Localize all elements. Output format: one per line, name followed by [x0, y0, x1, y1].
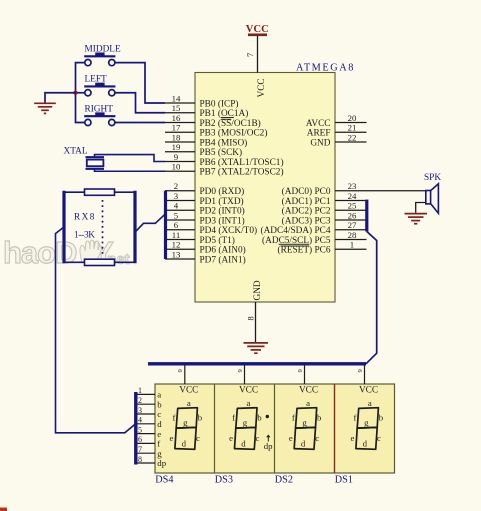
- svg-text:PB5 (SCK): PB5 (SCK): [200, 147, 243, 158]
- wire MIDDLE to PB0: [115, 63, 165, 103]
- wire VCC stem DS4: [177, 366, 185, 385]
- DS3 dp label with arrow: [264, 435, 273, 451]
- wire IC pin 8 to ground: [246, 302, 256, 342]
- svg-text:6: 6: [174, 220, 179, 230]
- svg-text:PD4 (XCK/T0): PD4 (XCK/T0): [200, 225, 258, 236]
- svg-text:f: f: [157, 439, 160, 449]
- wire VCC stem DS2: [297, 366, 305, 385]
- svg-text:10: 10: [172, 162, 181, 172]
- DS4 pin 8 segment dp: [137, 455, 167, 468]
- svg-text:b: b: [317, 413, 322, 423]
- wire RN1 left bar down to DS4 bus: [56, 227, 136, 433]
- pin 21 AREF right stub: [307, 123, 367, 139]
- svg-text:c: c: [315, 433, 319, 443]
- svg-text:d: d: [182, 439, 187, 449]
- svg-text:1: 1: [350, 240, 354, 250]
- svg-text:e: e: [351, 433, 355, 443]
- watermark haoDZY.net: [3, 235, 130, 270]
- DS4 pin 6 segment f: [137, 435, 160, 448]
- pin 24 PC1 right stub: [282, 191, 367, 207]
- svg-text:8: 8: [138, 455, 142, 464]
- svg-text:VCC: VCC: [359, 386, 378, 396]
- svg-text:f: f: [232, 413, 235, 423]
- svg-text:g: g: [243, 418, 248, 428]
- svg-text:25: 25: [348, 201, 357, 211]
- wire crystal bottom to PB7 pin 10: [95, 169, 166, 171]
- segment labels DS3: [229, 398, 262, 449]
- segment labels DS4: [170, 398, 203, 449]
- wire RN1 right bar to PD bus: [136, 214, 166, 231]
- svg-text:dp: dp: [264, 441, 273, 451]
- pin 11 PD5 left stub: [165, 230, 235, 246]
- display divider DS2|DS1: [334, 384, 336, 473]
- crystal Y1: [86, 157, 105, 169]
- wire VCC to IC pin 7: [245, 36, 258, 73]
- crystal XTAL label: [64, 147, 88, 157]
- svg-text:(RESET) PC6: (RESET) PC6: [278, 245, 331, 256]
- pushbutton LEFT: [84, 75, 115, 96]
- seven segment glyph DS2: [294, 408, 317, 450]
- pin 26 PC3 right stub: [282, 210, 367, 226]
- svg-text:f: f: [173, 413, 176, 423]
- pin 17 PB3 left stub: [165, 123, 267, 139]
- svg-text:dp: dp: [157, 458, 166, 468]
- bus horizontal above displays: [148, 362, 366, 365]
- svg-text:d: d: [157, 419, 162, 429]
- svg-text:24: 24: [348, 191, 357, 201]
- ground symbol at speaker: [405, 214, 428, 224]
- IC pin 7 VCC rotated label: [257, 78, 267, 97]
- svg-text:6: 6: [138, 435, 142, 444]
- pin 3 PD1 left stub: [165, 191, 244, 207]
- svg-text:5: 5: [174, 210, 179, 220]
- svg-text:14: 14: [172, 93, 181, 103]
- DS1 designator label: [335, 475, 353, 486]
- svg-text:R X 8: R X 8: [74, 213, 95, 223]
- svg-text:8: 8: [246, 316, 256, 320]
- svg-text:a: a: [306, 398, 310, 408]
- svg-text:9: 9: [357, 369, 364, 372]
- pin 25 PC2 right stub: [282, 201, 367, 217]
- svg-text:4: 4: [138, 416, 142, 425]
- pin 15 PB1 left stub: [165, 103, 248, 119]
- RN1 label R X 8: [74, 213, 95, 223]
- RN1 ellipsis dotted line: [102, 200, 104, 256]
- svg-text:PD5 (T1): PD5 (T1): [200, 235, 235, 246]
- svg-text:c: c: [196, 433, 200, 443]
- pin 27 PC4 right stub: [261, 220, 367, 236]
- svg-text:VCC: VCC: [246, 24, 269, 35]
- svg-text:c: c: [256, 433, 260, 443]
- pin 16 PB2 left stub: [165, 113, 261, 129]
- svg-text:17: 17: [172, 123, 181, 133]
- IC U1 designator ATMEGA8: [296, 63, 355, 74]
- svg-text:PB3 (MOSI/OC2): PB3 (MOSI/OC2): [200, 128, 268, 139]
- svg-text:1: 1: [138, 386, 142, 395]
- svg-text:b: b: [198, 413, 203, 423]
- svg-text:PD2 (INT0): PD2 (INT0): [200, 206, 245, 217]
- svg-text:28: 28: [348, 230, 357, 240]
- svg-text:d: d: [241, 439, 246, 449]
- pin 23 PC0 right stub: [282, 181, 367, 197]
- DS4 pin 2 segment b: [137, 396, 162, 409]
- DS4 pin 1 segment a: [137, 386, 161, 399]
- svg-text:haoD: haoD: [3, 235, 77, 270]
- power VCC symbol top: [246, 24, 269, 35]
- wire RIGHT to PB2: [115, 122, 165, 124]
- svg-text:12: 12: [172, 240, 181, 250]
- svg-text:e: e: [289, 433, 293, 443]
- svg-text:DS1: DS1: [335, 475, 353, 486]
- pin 28 PC5 right stub: [262, 230, 366, 246]
- pin 18 PB4 left stub: [165, 132, 247, 148]
- svg-text:a: a: [368, 398, 372, 408]
- wire crystal top to PB6 pin 9: [95, 155, 166, 162]
- display module outer box: [155, 384, 395, 473]
- svg-text:DS2: DS2: [275, 475, 293, 486]
- pin 13 PD7 left stub: [165, 249, 246, 265]
- svg-text:9: 9: [177, 369, 184, 372]
- RN1 value 1--3K: [74, 231, 95, 241]
- DS3 designator label: [215, 475, 233, 486]
- svg-text:VCC: VCC: [299, 386, 318, 396]
- svg-text:e: e: [170, 433, 174, 443]
- svg-text:a: a: [187, 398, 191, 408]
- svg-text:ATMEGA8: ATMEGA8: [296, 63, 355, 74]
- wire to left ground: [45, 93, 76, 103]
- DS4 pin 3 segment c: [137, 406, 161, 419]
- svg-text:f: f: [354, 413, 357, 423]
- svg-text:PB0 (ICP): PB0 (ICP): [200, 98, 239, 109]
- svg-text:VCC: VCC: [257, 78, 267, 97]
- speaker SPK: [424, 173, 441, 213]
- resistor RN1 bottom element: [66, 259, 134, 265]
- ground symbol left of buttons: [34, 103, 56, 113]
- junction node buttons-ground: [73, 91, 77, 95]
- svg-text:27: 27: [348, 220, 357, 230]
- svg-text:VCC: VCC: [239, 386, 258, 396]
- seven segment glyph DS4: [175, 408, 198, 450]
- op IC U1 ATMEGA8 body: [195, 73, 335, 303]
- svg-text:c: c: [377, 433, 381, 443]
- IC pin 8 GND rotated label: [253, 280, 263, 300]
- seven segment glyph DS1: [356, 408, 379, 450]
- wire VCC stem DS1: [357, 366, 365, 385]
- svg-text:PB2 (SS/OC1B): PB2 (SS/OC1B): [200, 118, 261, 129]
- svg-text:f: f: [292, 413, 295, 423]
- svg-text:22: 22: [348, 132, 357, 142]
- svg-text:13: 13: [172, 249, 181, 259]
- svg-text:PD7 (AIN1): PD7 (AIN1): [200, 254, 246, 265]
- svg-text:PD3 (INT1): PD3 (INT1): [200, 215, 245, 226]
- svg-text:19: 19: [172, 142, 181, 152]
- svg-text:11: 11: [172, 230, 180, 240]
- svg-text:b: b: [157, 399, 162, 409]
- svg-text:b: b: [257, 413, 262, 423]
- wire VCC stem DS3: [237, 366, 245, 385]
- svg-text:c: c: [157, 409, 161, 419]
- pin 5 PD3 left stub: [165, 210, 245, 226]
- segment labels DS1: [351, 398, 384, 449]
- svg-text:PD1 (TXD): PD1 (TXD): [200, 196, 244, 207]
- svg-text:18: 18: [172, 132, 181, 142]
- svg-text:d: d: [301, 439, 306, 449]
- svg-text:15: 15: [172, 103, 181, 113]
- DS4 pin 5 segment e: [137, 425, 161, 438]
- pin 22 GND right stub: [310, 132, 366, 148]
- svg-text:7: 7: [245, 53, 255, 57]
- svg-text:g: g: [302, 418, 307, 428]
- pin 6 PD4 left stub: [165, 220, 257, 236]
- svg-text:9: 9: [237, 369, 244, 372]
- svg-text:21: 21: [348, 123, 357, 133]
- pushbutton RIGHT: [84, 105, 115, 126]
- DS4 pin 4 segment d: [137, 416, 162, 429]
- segment labels DS2: [289, 398, 322, 449]
- svg-text:AVCC: AVCC: [306, 119, 331, 129]
- display divider DS4|DS3: [214, 384, 216, 473]
- pin 2 PD0 left stub: [165, 181, 244, 197]
- bus PC pins 24-27 vertical bar: [365, 200, 368, 232]
- svg-text:(ADC0) PC0: (ADC0) PC0: [282, 186, 331, 197]
- svg-text:AREF: AREF: [307, 129, 331, 139]
- svg-text:9: 9: [174, 152, 179, 162]
- svg-text:23: 23: [348, 181, 357, 191]
- DS4 VCC label: [179, 386, 198, 396]
- pin 10 PB7 left stub: [165, 162, 284, 178]
- svg-text:PD0 (RXD): PD0 (RXD): [200, 186, 245, 197]
- svg-text:SPK: SPK: [424, 173, 441, 183]
- DS3 VCC label: [239, 386, 258, 396]
- svg-text:a: a: [246, 398, 250, 408]
- svg-text:3: 3: [174, 191, 179, 201]
- svg-text:7: 7: [138, 445, 142, 454]
- svg-text:d: d: [363, 439, 368, 449]
- svg-text:g: g: [183, 418, 188, 428]
- svg-text:26: 26: [348, 210, 357, 220]
- wire speaker to ground: [416, 203, 426, 213]
- wire LEFT to PB1: [115, 93, 165, 113]
- svg-text:9: 9: [297, 369, 304, 372]
- svg-text:(ADC5/SCL) PC5: (ADC5/SCL) PC5: [262, 235, 331, 246]
- pin 14 PB0 left stub: [165, 93, 239, 109]
- svg-text:3: 3: [138, 406, 142, 415]
- svg-text:(ADC2) PC2: (ADC2) PC2: [282, 206, 331, 217]
- pin 9 PB6 left stub: [165, 152, 284, 168]
- svg-text:DS3: DS3: [215, 475, 233, 486]
- DS4 pin 7 segment g: [137, 445, 162, 458]
- pushbutton MIDDLE: [84, 45, 121, 66]
- svg-text:PD6 (AIN0): PD6 (AIN0): [200, 245, 246, 256]
- svg-text:PB1 (OC1A): PB1 (OC1A): [200, 108, 249, 119]
- svg-text:VCC: VCC: [179, 386, 198, 396]
- svg-text:PB4 (MISO): PB4 (MISO): [200, 137, 248, 148]
- svg-text:20: 20: [348, 113, 357, 123]
- seven segment glyph DS3: [235, 408, 258, 450]
- pin 20 AVCC right stub: [306, 113, 367, 129]
- svg-text:GND: GND: [310, 138, 330, 148]
- DS2 VCC label: [299, 386, 318, 396]
- DS1 VCC label: [359, 386, 378, 396]
- svg-text:2: 2: [174, 181, 178, 191]
- svg-text:b: b: [379, 413, 384, 423]
- wire PC bus down to display bus: [366, 232, 377, 364]
- DS4 designator label: [155, 475, 173, 486]
- pin 12 PD6 left stub: [165, 240, 246, 256]
- red mark bottom left: [0, 508, 7, 511]
- resistor network RN1 left bar: [62, 191, 65, 264]
- wire PC0 pin 23 to speaker: [367, 190, 426, 192]
- svg-text:XTAL: XTAL: [64, 147, 88, 157]
- pin 4 PD2 left stub: [165, 201, 245, 217]
- svg-text:g: g: [364, 418, 369, 428]
- svg-text:DS4: DS4: [155, 475, 173, 486]
- svg-text:1--3K: 1--3K: [74, 231, 95, 241]
- svg-text:4: 4: [174, 201, 179, 211]
- pin 1 PC6 right stub: [278, 240, 367, 256]
- DS2 designator label: [275, 475, 293, 486]
- svg-text:PB6 (XTAL1/TOSC1): PB6 (XTAL1/TOSC1): [200, 157, 284, 168]
- DS3 decimal point dot: [266, 415, 269, 418]
- svg-text:a: a: [157, 390, 161, 400]
- svg-text:(ADC3) PC3: (ADC3) PC3: [282, 215, 331, 226]
- pin 19 PB5 left stub: [165, 142, 242, 158]
- ground symbol under IC: [244, 343, 269, 353]
- svg-text:5: 5: [138, 425, 142, 434]
- svg-text:2: 2: [138, 396, 142, 405]
- svg-text:(ADC4/SDA) PC4: (ADC4/SDA) PC4: [261, 225, 331, 236]
- svg-text:e: e: [157, 429, 161, 439]
- resistor RN1 top element: [66, 189, 134, 195]
- svg-text:(ADC1) PC1: (ADC1) PC1: [282, 196, 331, 207]
- bus PD vertical bar: [164, 191, 167, 259]
- resistor network RN1 right bar: [133, 191, 136, 264]
- svg-text:g: g: [157, 448, 162, 458]
- svg-text:e: e: [229, 433, 233, 443]
- svg-text:GND: GND: [253, 280, 263, 300]
- svg-text:PB7 (XTAL2/TOSC2): PB7 (XTAL2/TOSC2): [200, 167, 284, 178]
- bus DS4 left vertical bar: [134, 392, 137, 465]
- svg-text:16: 16: [172, 113, 181, 123]
- wire buttons common left vertical: [76, 63, 85, 123]
- display divider DS3|DS2: [274, 384, 276, 473]
